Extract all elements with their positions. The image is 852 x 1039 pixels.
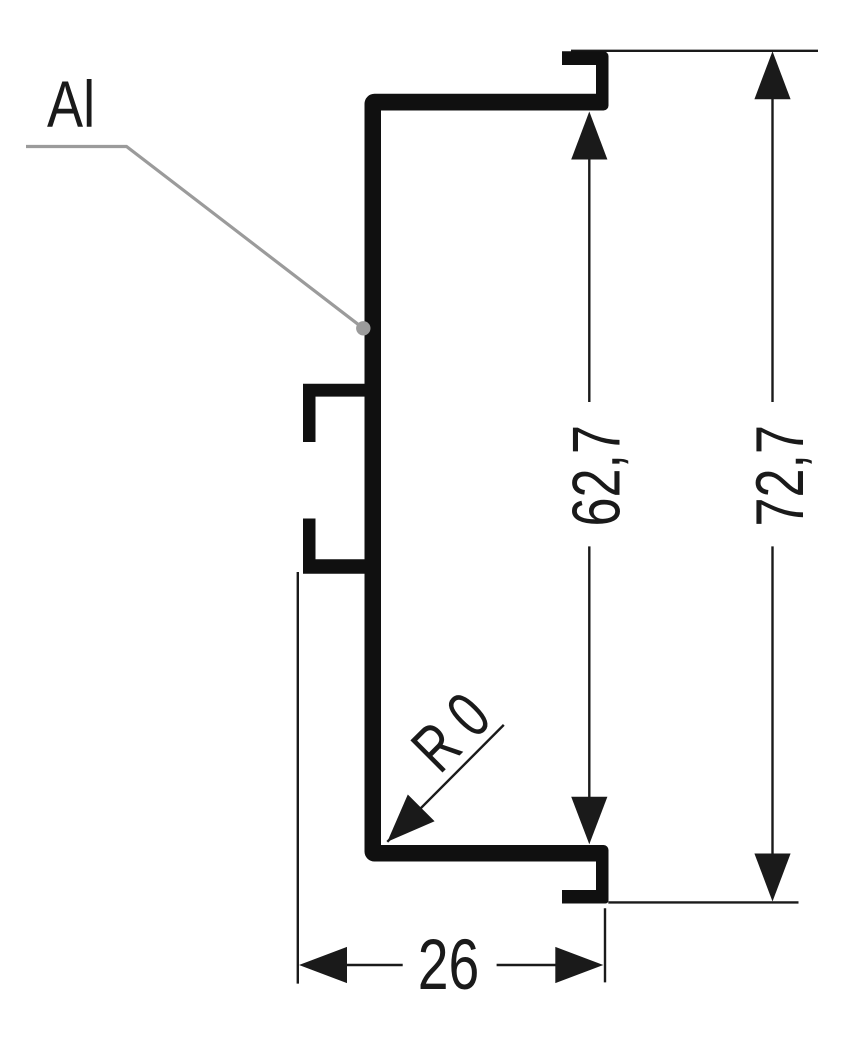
dimension 62,7 : top arrowhead <box>571 112 607 160</box>
dimension 26 : right arrowhead <box>555 947 603 983</box>
bottom extension line <box>608 901 798 903</box>
profile cross-section (Al) <box>303 51 609 903</box>
material label Al : leader dot <box>356 321 370 335</box>
dimension 26 : left extension line <box>297 572 299 984</box>
svg-text:62,7: 62,7 <box>558 425 634 526</box>
radius leader R0 : line <box>387 725 504 842</box>
dimension 26 : left arrowhead <box>299 947 347 983</box>
dimension 26 : right extension line <box>604 908 606 982</box>
dimension 72,7 : line lower segment <box>771 546 773 855</box>
dimension 62,7 : bottom arrowhead <box>571 797 607 845</box>
dimension 72,7 : line upper segment <box>771 97 773 402</box>
svg-text:Al: Al <box>47 67 95 141</box>
radius leader R0 : arrowhead <box>387 795 434 842</box>
dimension 62,7 : line lower segment <box>588 546 590 798</box>
material label Al : leader polyline <box>26 147 363 329</box>
dimension 26 : line left segment <box>345 964 403 966</box>
dimension 26 : line right segment <box>497 964 558 966</box>
svg-text:72,7: 72,7 <box>741 425 817 526</box>
dimension 62,7 : line upper segment <box>588 158 590 402</box>
top extension line <box>571 50 818 52</box>
svg-text:26: 26 <box>418 925 480 1004</box>
dimension 72,7 : bottom arrowhead <box>754 854 790 902</box>
dimension 72,7 : top arrowhead <box>754 51 790 99</box>
